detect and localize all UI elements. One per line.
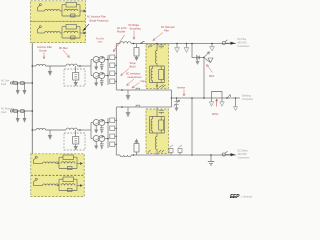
svg-text:MOV: MOV — [209, 76, 215, 78]
box A tank inductor branch — [151, 66, 153, 83]
trap row2 tank rails — [62, 27, 80, 38]
trap row1 parallel tank R — [66, 3, 77, 8]
bottom trap row1 wire — [34, 163, 43, 165]
AC line input pin — [10, 82, 12, 84]
upper feed ground arrow — [49, 66, 51, 71]
bottom caps above wire 2 — [179, 153, 181, 156]
trap row1 tank L — [64, 9, 78, 11]
arrow from harmonic note — [153, 33, 163, 41]
svg-text:Common Filter: Common Filter — [37, 46, 52, 49]
box B entry stem — [156, 107, 158, 112]
box B tank inductor branch — [151, 117, 153, 134]
arrow from bleed note — [121, 69, 130, 76]
junction AC line bus — [32, 82, 34, 84]
DC minus bottom wire — [116, 154, 236, 156]
bottom trap row1 inductor — [43, 162, 59, 164]
lower cap ladder — [110, 118, 117, 147]
top drop to arrester cluster — [192, 44, 204, 58]
lower winding2 ground — [95, 141, 97, 145]
bleeder resistor — [134, 48, 139, 57]
box A series inductor vertical — [155, 49, 157, 64]
bottom trap row2 inductor — [43, 184, 59, 186]
DC harmonic filter highlight box B — [146, 109, 168, 153]
earth stub ground — [235, 98, 237, 107]
svg-text:AC Induction Filter: AC Induction Filter — [87, 16, 106, 19]
svg-text:AC to DC: AC to DC — [117, 27, 127, 30]
AC line trap filter highlight box top row — [31, 1, 86, 21]
upper feed wire — [46, 65, 66, 67]
right return rail — [191, 98, 193, 155]
junction AC neutral bus — [32, 110, 34, 112]
svg-text:Surge: Surge — [130, 62, 137, 65]
DC line trap highlight box bottom row2 — [31, 176, 84, 197]
box A entry element right — [159, 44, 165, 49]
lower transformer winding pair 2 — [91, 138, 93, 140]
cluster diode — [197, 56, 200, 60]
upper feed wire — [32, 65, 36, 67]
bottom caps above wire 1 — [170, 153, 172, 156]
svg-text:Arrester: Arrester — [177, 87, 185, 90]
trap row1 tank rails — [62, 5, 80, 16]
AC neutral cap leg 2 — [24, 111, 26, 118]
lower feed ground arrow — [49, 130, 51, 135]
svg-text:DC Plus: DC Plus — [238, 39, 247, 41]
top wire hollow ground 2 — [186, 44, 188, 48]
DC rail upper segment — [115, 44, 117, 91]
arrow to trap box — [84, 24, 90, 30]
svg-text:Filter: Filter — [164, 30, 169, 33]
upper RF component box — [73, 73, 79, 81]
svg-text:Smoothing: Smoothing — [130, 28, 142, 31]
trap row2 tank C — [71, 36, 76, 39]
svg-text:Earthing: Earthing — [242, 95, 251, 98]
upper winding1 ground — [95, 62, 97, 66]
svg-text:DC Bridge: DC Bridge — [129, 24, 140, 27]
box A entry stem — [156, 44, 158, 49]
upper cap ladder — [110, 55, 117, 84]
DC harmonic filter highlight box A — [146, 45, 168, 89]
trap row1 input pin — [38, 6, 40, 12]
arrow from rectifier note — [113, 35, 124, 52]
upper RF filter dashed box — [64, 69, 85, 86]
bottom wire inductor — [120, 155, 131, 157]
trap row1 wire — [60, 10, 62, 12]
earth link wire right — [172, 97, 241, 99]
right bus upper — [203, 58, 205, 99]
EEP logo — [230, 194, 254, 200]
upper RF inductor — [66, 64, 77, 66]
AC line cap leg 1 — [17, 83, 19, 90]
left vertical bus — [31, 43, 33, 154]
svg-text:Connection: Connection — [238, 45, 250, 48]
bottom trap row2 tank R — [63, 177, 74, 182]
bottom wire junction — [133, 154, 135, 156]
bottom trap row1 arrow — [77, 163, 80, 165]
AC line series element 1 — [14, 82, 17, 85]
upper RF shunt stem — [75, 66, 77, 73]
upper feed inductor — [36, 64, 46, 66]
lower RF ground — [75, 144, 77, 146]
DC plus output connector — [222, 41, 225, 44]
bottom trap row2 tank C — [68, 189, 73, 192]
bottom trap row1 tank C — [68, 167, 73, 170]
AC line junction dots — [17, 82, 18, 83]
trap row1 output arrow — [80, 10, 84, 12]
earth bypass box — [212, 92, 223, 99]
svg-text:(Single Frequency): (Single Frequency) — [89, 20, 109, 23]
svg-text:Connection: Connection — [242, 98, 253, 101]
lower RF component box — [73, 137, 79, 145]
AC neutral wire — [13, 110, 33, 112]
lower feed wire — [32, 129, 36, 131]
box A tank top rail — [150, 63, 165, 85]
trap row2 input pin — [38, 28, 40, 34]
svg-text:MOVs: MOVs — [212, 114, 219, 116]
svg-text:RF Filter: RF Filter — [59, 47, 68, 50]
mid lower inline tick — [136, 105, 140, 107]
svg-text:Bleed: Bleed — [130, 67, 137, 69]
DC line trap highlight box bottom row1 — [31, 154, 84, 175]
top wire hollow ground 3 — [211, 44, 213, 47]
bottom trap row2 pin — [34, 180, 36, 186]
bottom trap row1 tank R — [63, 155, 74, 160]
AC neutral junction dots — [17, 110, 18, 111]
top wire hollow ground 1 — [176, 44, 178, 48]
lower winding1 ground — [95, 125, 97, 129]
mid lower ground — [127, 107, 129, 112]
AC neutral cap leg 1 — [17, 111, 19, 118]
cluster arrow up right — [205, 52, 210, 57]
box B tank resistor branch — [159, 120, 164, 130]
svg-text:DC Minus: DC Minus — [238, 151, 249, 153]
bottom trap row2 arrow — [77, 185, 80, 187]
AC neutral series element 1 — [14, 110, 17, 113]
upper winding2 cap to ground — [100, 78, 104, 83]
mid lower link wire — [116, 106, 171, 108]
arrow from resistance note — [127, 79, 135, 86]
bottom bleeder resistor — [134, 144, 139, 153]
svg-text:Connection: Connection — [238, 157, 250, 160]
DC plus top wire — [116, 43, 236, 45]
AC neutral input pin — [10, 110, 12, 112]
lower RF shunt stem — [75, 130, 77, 137]
svg-text:AC Line: AC Line — [1, 80, 10, 83]
box B exit ticks — [148, 150, 164, 153]
bottom earth ground — [210, 155, 212, 162]
trap row1 tank C — [71, 14, 76, 17]
DC rail lower segment — [115, 107, 117, 155]
inline pin before harmonic box — [142, 42, 145, 44]
svg-text:Rectifier: Rectifier — [96, 38, 105, 41]
box B entry element — [159, 109, 165, 114]
arrow down from DC bridge note — [133, 31, 135, 40]
svg-text:DC resistance: DC resistance — [126, 73, 141, 76]
top wire inductor — [120, 42, 131, 44]
box B tank — [150, 112, 165, 137]
svg-text:Circuits: Circuits — [39, 50, 48, 53]
upper RF ground — [75, 80, 77, 82]
box B series inductor vertical — [155, 137, 157, 156]
box A exit stem — [156, 86, 158, 90]
AC line series element 2 — [21, 82, 24, 85]
svg-text:Caps: Caps — [97, 42, 103, 44]
lower winding1 cap to ground — [100, 125, 104, 130]
cluster junction — [203, 57, 205, 59]
svg-text:measurement: measurement — [128, 76, 142, 79]
upper winding2 ground — [95, 78, 97, 82]
lower RF filter dashed box — [64, 133, 85, 150]
upper transformer vertical — [90, 60, 92, 76]
mid upper link wire — [116, 89, 171, 91]
svg-text:400 VDC: 400 VDC — [238, 154, 248, 156]
mid right connector vertical — [171, 90, 173, 107]
trap row2 wire — [60, 32, 62, 34]
lower feed inductor — [36, 128, 46, 130]
svg-text:Caps: Caps — [141, 81, 147, 83]
box A tank resistor branch — [159, 70, 164, 80]
bottom trap row2 tank L — [61, 184, 75, 186]
DC minus output connector — [222, 153, 225, 156]
svg-text:400 VDC: 400 VDC — [238, 43, 248, 45]
red arrow MOV bank — [216, 99, 218, 107]
trap row2 output arrow — [80, 32, 84, 34]
trap row1 wire — [38, 10, 45, 12]
box A exit junction — [156, 85, 158, 87]
arrow down from common filter note — [43, 53, 45, 60]
lower transformer vertical — [90, 123, 92, 139]
box A entry tick left — [148, 45, 153, 48]
svg-text:Rectifier: Rectifier — [117, 31, 126, 34]
lower secondary bus — [107, 118, 109, 148]
mid upper inline tick — [136, 88, 140, 90]
cluster arrester triangle — [205, 58, 213, 63]
bottom trap row1 tank rails — [57, 157, 78, 168]
lower winding2 cap to ground — [100, 141, 104, 146]
svg-text:Input: Input — [1, 83, 7, 86]
mid upper ground — [127, 90, 129, 95]
lower feed wire — [46, 129, 66, 131]
lower transformer winding pair 1 — [91, 122, 93, 124]
bottom trap row1 pin — [34, 158, 36, 164]
MOV to earth — [176, 97, 178, 99]
bleeder resistor stem — [136, 44, 138, 48]
upper feed wire to transformer — [77, 65, 91, 67]
earth cap 1 — [211, 98, 213, 102]
AC line wire — [13, 82, 33, 84]
bleeder ground — [136, 56, 138, 57]
trap row2 inductor L2 — [45, 31, 60, 33]
lower feed wire to transformer — [77, 129, 91, 131]
upper transformer winding pair 1 — [91, 59, 93, 61]
AC line cap leg 2 — [24, 83, 26, 90]
arrow from RF filter note — [63, 50, 70, 58]
svg-text:EEP: EEP — [230, 194, 240, 200]
cluster ground — [197, 60, 199, 62]
svg-text:Input: Input — [1, 111, 7, 114]
bottom trap row2 wire — [34, 185, 43, 187]
lower RF inductor — [66, 128, 77, 130]
earth cap 2 — [221, 98, 223, 102]
upper winding1 cap to ground — [100, 62, 104, 67]
trap row2 parallel tank R — [66, 25, 77, 30]
AC neutral series element 2 — [21, 110, 24, 113]
AC line trap filter highlight box second row — [31, 22, 86, 43]
earth junction tick — [226, 97, 228, 99]
trap row2 wire — [38, 32, 45, 34]
upper transformer winding pair 2 — [91, 75, 93, 77]
svg-text:DC Harmonic: DC Harmonic — [161, 26, 176, 29]
trap row2 tank L — [64, 31, 78, 33]
bottom trap row1 tank L — [61, 162, 75, 164]
svg-text:| electrical...: | electrical... — [242, 196, 254, 199]
top wire junction — [133, 43, 135, 45]
trap row1 inductor L1 — [45, 9, 60, 11]
bottom bleeder stem — [136, 152, 138, 155]
upper secondary bus — [107, 55, 109, 85]
bottom bleeder ground — [136, 143, 138, 144]
bottom trap row2 tank rails — [57, 179, 78, 190]
